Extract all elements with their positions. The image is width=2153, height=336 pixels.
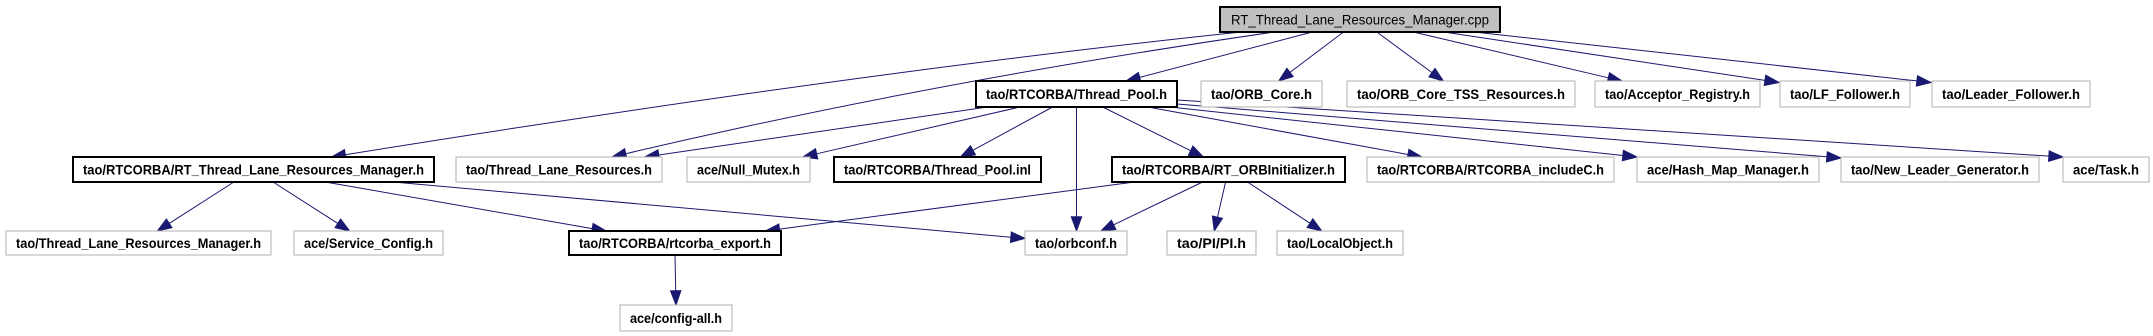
edge RT_Thread_Lane_Resources_Manager.cpp -> tao/ORB_Core.h <box>1279 32 1344 81</box>
node RT_Thread_Lane_Resources_Manager.cpp <box>1220 7 1500 32</box>
svg-text:ace/config-all.h: ace/config-all.h <box>630 310 722 326</box>
svg-text:ace/Service_Config.h: ace/Service_Config.h <box>304 235 433 251</box>
edge tao/RTCORBA/RT_ORBInitializer.h -> tao/orbconf.h <box>1101 182 1203 231</box>
edge tao/RTCORBA/Thread_Pool.h -> ace/Null_Mutex.h <box>803 107 1020 159</box>
node tao/Acceptor_Registry.h <box>1595 81 1760 107</box>
svg-text:tao/PI/PI.h: tao/PI/PI.h <box>1177 235 1246 251</box>
svg-text:tao/ORB_Core_TSS_Resources.h: tao/ORB_Core_TSS_Resources.h <box>1357 86 1565 102</box>
svg-text:tao/RTCORBA/RT_ORBInitializer.: tao/RTCORBA/RT_ORBInitializer.h <box>1122 162 1335 178</box>
edge tao/RTCORBA/Thread_Pool.h -> tao/RTCORBA/RTCORBA_includeC.h <box>1148 107 1422 160</box>
node tao/Thread_Lane_Resources.h <box>456 157 662 182</box>
node tao/RTCORBA/rtcorba_export.h <box>569 231 781 255</box>
node tao/RTCORBA/RT_Thread_Lane_Resources_Manager.h <box>73 157 434 182</box>
node tao/ORB_Core_TSS_Resources.h <box>1347 81 1575 107</box>
svg-text:tao/RTCORBA/RT_Thread_Lane_Res: tao/RTCORBA/RT_Thread_Lane_Resources_Man… <box>83 162 424 178</box>
edge RT_Thread_Lane_Resources_Manager.cpp -> tao/LF_Follower.h <box>1444 32 1779 86</box>
svg-text:tao/RTCORBA/rtcorba_export.h: tao/RTCORBA/rtcorba_export.h <box>579 235 771 251</box>
node tao/LocalObject.h <box>1277 231 1403 255</box>
node ace/Service_Config.h <box>294 231 443 255</box>
node tao/New_Leader_Generator.h <box>1841 157 2039 182</box>
svg-text:tao/ORB_Core.h: tao/ORB_Core.h <box>1211 86 1312 102</box>
edge tao/RTCORBA/Thread_Pool.h -> ace/Hash_Map_Manager.h <box>1170 107 1637 161</box>
node ace/config-all.h <box>620 305 732 331</box>
svg-text:tao/New_Leader_Generator.h: tao/New_Leader_Generator.h <box>1851 162 2029 178</box>
svg-text:ace/Hash_Map_Manager.h: ace/Hash_Map_Manager.h <box>1647 162 1809 178</box>
node ace/Hash_Map_Manager.h <box>1637 157 1819 182</box>
svg-text:tao/RTCORBA/Thread_Pool.h: tao/RTCORBA/Thread_Pool.h <box>986 86 1167 102</box>
edge RT_Thread_Lane_Resources_Manager.cpp -> tao/Leader_Follower.h <box>1474 32 1931 86</box>
edge RT_Thread_Lane_Resources_Manager.cpp -> tao/ORB_Core_TSS_Resources.h <box>1377 32 1444 81</box>
node tao/LF_Follower.h <box>1780 81 1910 107</box>
svg-text:tao/Thread_Lane_Resources_Mana: tao/Thread_Lane_Resources_Manager.h <box>16 235 261 251</box>
svg-text:tao/LocalObject.h: tao/LocalObject.h <box>1287 235 1393 251</box>
edge tao/RTCORBA/Thread_Pool.h -> tao/Thread_Lane_Resources.h <box>645 107 988 160</box>
edge tao/RTCORBA/Thread_Pool.h -> tao/orbconf.h <box>1071 107 1081 231</box>
edge tao/RTCORBA/RT_ORBInitializer.h -> tao/LocalObject.h <box>1248 182 1322 231</box>
edge tao/RTCORBA/RT_ORBInitializer.h -> tao/RTCORBA/rtcorba_export.h <box>765 182 1134 234</box>
svg-text:RT_Thread_Lane_Resources_Manag: RT_Thread_Lane_Resources_Manager.cpp <box>1231 12 1489 28</box>
node ace/Null_Mutex.h <box>687 157 810 182</box>
node tao/RTCORBA/RT_ORBInitializer.h <box>1112 157 1345 182</box>
edge tao/RTCORBA/Thread_Pool.h -> tao/RTCORBA/RT_ORBInitializer.h <box>1103 107 1204 157</box>
edge RT_Thread_Lane_Resources_Manager.cpp -> tao/Acceptor_Registry.h <box>1413 32 1622 83</box>
edge tao/RTCORBA/Thread_Pool.h -> ace/Task.h <box>1177 100 2063 161</box>
edge tao/RTCORBA/RT_Thread_Lane_Resources_Manager.h -> tao/orbconf.h <box>393 182 1025 242</box>
svg-text:tao/RTCORBA/Thread_Pool.inl: tao/RTCORBA/Thread_Pool.inl <box>844 162 1031 178</box>
node tao/orbconf.h <box>1025 231 1127 255</box>
node tao/RTCORBA/RTCORBA_includeC.h <box>1367 157 1614 182</box>
edge tao/RTCORBA/Thread_Pool.h -> tao/RTCORBA/Thread_Pool.inl <box>961 107 1053 157</box>
svg-text:tao/RTCORBA/RTCORBA_includeC.h: tao/RTCORBA/RTCORBA_includeC.h <box>1377 162 1604 178</box>
svg-text:tao/Leader_Follower.h: tao/Leader_Follower.h <box>1942 86 2080 102</box>
edge tao/RTCORBA/RT_Thread_Lane_Resources_Manager.h -> tao/Thread_Lane_Resources_Manager.h <box>157 182 234 231</box>
edge tao/RTCORBA/RT_Thread_Lane_Resources_Manager.h -> ace/Service_Config.h <box>273 182 350 231</box>
node tao/RTCORBA/Thread_Pool.inl <box>834 157 1041 182</box>
edge tao/RTCORBA/rtcorba_export.h -> ace/config-all.h <box>671 255 681 305</box>
svg-text:ace/Null_Mutex.h: ace/Null_Mutex.h <box>697 162 800 178</box>
edge RT_Thread_Lane_Resources_Manager.cpp -> tao/RTCORBA/Thread_Pool.h <box>1126 32 1312 82</box>
edge RT_Thread_Lane_Resources_Manager.cpp -> tao/Thread_Lane_Resources.h <box>612 32 1274 159</box>
svg-text:ace/Task.h: ace/Task.h <box>2073 162 2139 178</box>
edge tao/RTCORBA/RT_Thread_Lane_Resources_Manager.h -> tao/RTCORBA/rtcorba_export.h <box>325 182 606 234</box>
svg-text:tao/Acceptor_Registry.h: tao/Acceptor_Registry.h <box>1605 86 1750 102</box>
node ace/Task.h <box>2063 157 2149 182</box>
edge tao/RTCORBA/RT_ORBInitializer.h -> tao/PI/PI.h <box>1212 182 1225 231</box>
node tao/PI/PI.h <box>1167 231 1256 255</box>
svg-text:tao/orbconf.h: tao/orbconf.h <box>1035 235 1117 251</box>
node tao/RTCORBA/Thread_Pool.h <box>976 81 1177 107</box>
svg-text:tao/Thread_Lane_Resources.h: tao/Thread_Lane_Resources.h <box>466 162 652 178</box>
node tao/Thread_Lane_Resources_Manager.h <box>6 231 271 255</box>
edge RT_Thread_Lane_Resources_Manager.cpp -> tao/RTCORBA/RT_Thread_Lane_Resources_Manager.h <box>331 32 1241 160</box>
svg-text:tao/LF_Follower.h: tao/LF_Follower.h <box>1790 86 1900 102</box>
edge tao/RTCORBA/Thread_Pool.h -> tao/New_Leader_Generator.h <box>1177 104 1841 162</box>
node tao/ORB_Core.h <box>1201 81 1322 107</box>
node tao/Leader_Follower.h <box>1932 81 2090 107</box>
